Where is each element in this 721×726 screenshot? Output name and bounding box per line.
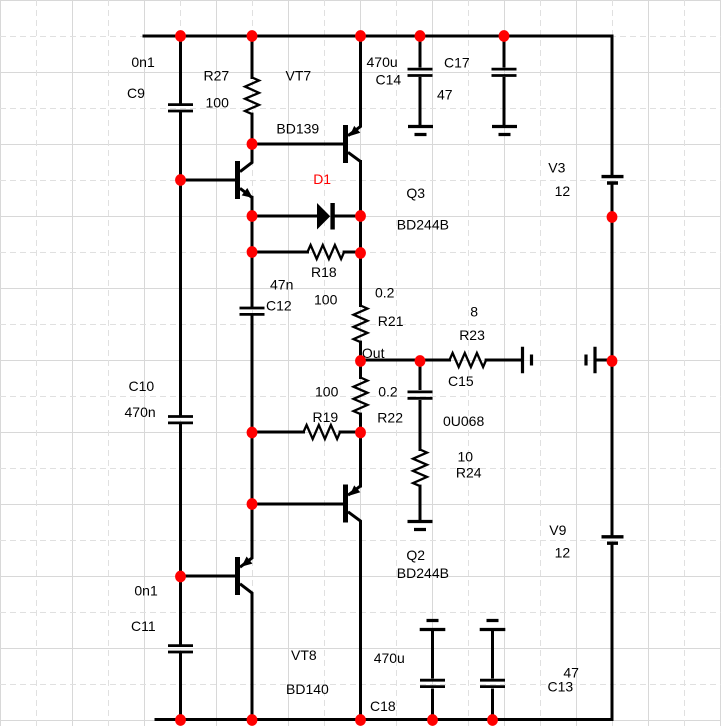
diode D1 (317, 203, 335, 230)
svg-text:C9: C9 (127, 85, 145, 101)
transistor Q2 BD244B (343, 432, 361, 720)
wire R19 right lead (340, 431, 360, 434)
svg-text:8: 8 (470, 304, 478, 320)
junction node B (247, 30, 258, 42)
wire Q2 base (252, 503, 343, 506)
junction node V (355, 714, 366, 726)
svg-text:0n1: 0n1 (134, 583, 158, 599)
svg-text:0U068: 0U068 (443, 413, 484, 429)
svg-text:BD140: BD140 (286, 681, 329, 697)
flipped ground above C13 (480, 621, 506, 630)
junction node Out (355, 355, 366, 367)
wire C10 to C11 (179, 425, 182, 645)
wire left column C9 top lead (179, 36, 182, 103)
svg-text:100: 100 (206, 95, 230, 111)
svg-text:100: 100 (314, 292, 338, 308)
wire R22 to R19 node (359, 414, 362, 432)
svg-text:R21: R21 (378, 313, 404, 329)
wire R19 node to Q2 emitter (359, 432, 362, 486)
junction node U (247, 714, 258, 726)
svg-text:C13: C13 (548, 679, 574, 695)
junction node E (499, 30, 510, 42)
wire C11 to bottom rail (179, 653, 182, 720)
svg-text:VT8: VT8 (291, 647, 317, 663)
svg-text:12: 12 (555, 545, 571, 561)
svg-text:R18: R18 (311, 264, 337, 280)
wire bottom supply rail (156, 718, 612, 721)
svg-text:V9: V9 (549, 522, 566, 538)
wire C17 to ground (503, 79, 506, 126)
wire C18 from flipped ground (431, 630, 434, 678)
junction node F (247, 138, 258, 150)
svg-text:V3: V3 (548, 160, 565, 176)
wire R23 to ground (486, 359, 521, 362)
svg-text:C15: C15 (448, 373, 474, 389)
flipped ground above C18 (420, 621, 446, 630)
wire right rail drop to V3 (611, 36, 614, 175)
wire R27 bottom lead to node (251, 114, 254, 144)
ground below R24 (408, 522, 433, 530)
junction node A (175, 30, 186, 42)
junction node R (247, 498, 258, 510)
wire mid node to V9 (611, 362, 614, 535)
junction node J (607, 211, 618, 223)
junction node H (247, 210, 258, 222)
svg-text:C11: C11 (131, 618, 156, 634)
svg-text:BD244B: BD244B (397, 217, 449, 233)
wire D1 anode (252, 215, 317, 218)
svg-text:0n1: 0n1 (131, 54, 155, 70)
svg-text:BD244B: BD244B (397, 565, 449, 581)
junction node D (415, 30, 426, 42)
wire R18 left lead (252, 251, 308, 254)
junction node P (247, 427, 258, 439)
wire R18 right lead (344, 251, 360, 254)
resistor R27 100 (245, 78, 259, 115)
resistor R22 0.2 (354, 378, 368, 415)
capacitor C18 470u (420, 680, 445, 686)
wire C14 top lead (419, 36, 422, 66)
wire VT7 emitter column to C12 (251, 197, 254, 306)
ground at R23 (523, 347, 532, 374)
resistor R18 100 (308, 245, 345, 259)
wire VT8 base (181, 575, 236, 578)
wire VT7 base node to C10 (179, 180, 182, 415)
junction node S (175, 571, 186, 583)
svg-text:R23: R23 (459, 327, 485, 343)
svg-text:10: 10 (458, 449, 474, 465)
capacitor C9 0n1 (168, 105, 193, 111)
svg-text:0.2: 0.2 (375, 285, 395, 301)
wire R27 top lead (251, 36, 254, 78)
svg-text:R22: R22 (377, 410, 403, 426)
svg-text:Q2: Q2 (406, 547, 425, 563)
wire Q3 base (252, 143, 343, 146)
junction node L (355, 247, 366, 259)
wire C15 top lead (419, 360, 422, 389)
wire C14 to ground (419, 79, 422, 126)
svg-text:12: 12 (555, 183, 571, 199)
junction node I (355, 210, 366, 222)
resistor R19 100 (304, 425, 341, 439)
svg-text:47: 47 (437, 87, 453, 103)
transistor VT8 BD140 (235, 504, 252, 720)
wire C15 to R24 (419, 402, 422, 450)
wire C17 top lead (503, 36, 506, 66)
transistor Q3 BD244B (343, 36, 361, 163)
wire Out node to C15 branch (361, 359, 421, 362)
svg-text:R24: R24 (456, 465, 482, 481)
wire R19 node to Q2 base node (251, 432, 254, 504)
capacitor C11 0n1 (168, 646, 193, 652)
svg-text:100: 100 (315, 384, 339, 400)
wire mid rail to ground (596, 359, 612, 362)
junction node T (175, 714, 186, 726)
wire V3 to mid node (611, 185, 614, 359)
ground below C14 (408, 127, 433, 135)
wire C12 to R19 node (251, 316, 254, 432)
capacitor C10 470n (168, 417, 193, 423)
svg-text:C17: C17 (444, 55, 470, 71)
svg-text:47n: 47n (270, 277, 293, 293)
resistor R21 0.2 (354, 306, 368, 343)
wire R24 to ground (419, 486, 422, 520)
svg-text:VT7: VT7 (286, 68, 312, 84)
resistor R23 8 (450, 353, 487, 367)
svg-text:470u: 470u (374, 650, 405, 666)
wire C13 to bottom rail (491, 690, 494, 720)
capacitor C17 47 (492, 69, 517, 75)
junction node X (487, 714, 498, 726)
capacitor C15 0u068 (408, 392, 433, 398)
svg-text:C12: C12 (266, 298, 292, 314)
capacitor C14 470u (408, 69, 433, 75)
junction node M (415, 355, 426, 367)
junction node W2 (427, 714, 438, 726)
junction node Q (355, 427, 366, 439)
svg-text:C10: C10 (129, 378, 155, 394)
svg-text:0.2: 0.2 (378, 384, 398, 400)
svg-text:470n: 470n (125, 404, 156, 420)
svg-text:470u: 470u (367, 54, 398, 70)
wire C15 branch to R23 (420, 359, 450, 362)
wire Q3 collector to R21 (359, 162, 362, 306)
junction node C (355, 30, 366, 42)
junction node G (175, 174, 186, 186)
wire C9 to VT7 base node (179, 113, 182, 181)
wire R21 to Out node (359, 342, 362, 360)
svg-text:R27: R27 (204, 68, 230, 84)
wire C18 to bottom rail (431, 690, 434, 720)
svg-text:C18: C18 (370, 698, 396, 714)
svg-text:C14: C14 (376, 72, 402, 88)
svg-text:R19: R19 (313, 409, 339, 425)
wire VT7 base (181, 179, 236, 182)
ground below C17 (492, 127, 517, 135)
capacitor C13 47 (480, 680, 505, 686)
transistor VT7 BD139 (235, 144, 253, 216)
voltage source V3 12V (602, 177, 624, 183)
wire C13 from flipped ground (491, 630, 494, 678)
wire D1 cathode to right column (335, 215, 361, 218)
svg-text:BD139: BD139 (276, 121, 319, 137)
wire top supply rail (144, 35, 612, 38)
svg-text:Q3: Q3 (406, 185, 425, 201)
wire Out node to R22 (359, 360, 362, 378)
wire R19 left lead (252, 431, 304, 434)
capacitor C12 47n (240, 308, 265, 314)
ground at supply midpoint (586, 347, 595, 374)
svg-text:D1: D1 (313, 171, 331, 187)
junction node N (607, 355, 618, 367)
voltage source V9 12V (602, 537, 624, 543)
junction node K (247, 246, 258, 258)
wire V9 to bottom rail corner (611, 545, 614, 720)
resistor R24 10 (413, 450, 427, 487)
